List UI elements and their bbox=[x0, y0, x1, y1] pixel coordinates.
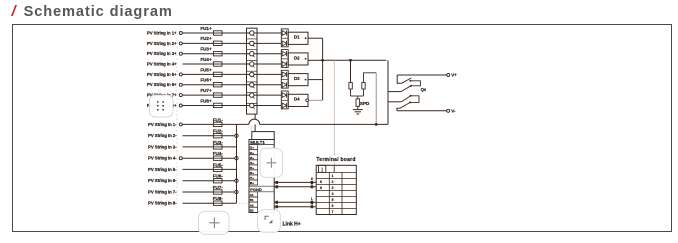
diode pair cell for strings 3/4 bbox=[281, 50, 288, 68]
svg-text:Qs: Qs bbox=[421, 87, 427, 92]
node SPD tap junction bbox=[349, 59, 352, 62]
wire PV string 6- row bbox=[183, 180, 237, 182]
surge protector SPD left arm wire bbox=[350, 60, 352, 82]
fuse FU4+ bbox=[200, 57, 222, 66]
node SPD negative junction bbox=[375, 123, 378, 126]
node PV String In 1+ input terminal bbox=[147, 31, 182, 36]
wire voltage sense line to terminal board bbox=[333, 60, 335, 172]
node PV String In 2+ input terminal bbox=[147, 41, 182, 46]
fuse FU7- bbox=[213, 185, 224, 194]
svg-text:FU2+: FU2+ bbox=[200, 36, 212, 41]
svg-text:FU4-: FU4- bbox=[213, 151, 224, 156]
svg-text:L: L bbox=[311, 197, 313, 201]
svg-text:Terminal board: Terminal board bbox=[316, 157, 355, 163]
svg-text:I3+: I3+ bbox=[250, 156, 255, 160]
wire negative feed to switch pole 3 bbox=[388, 101, 402, 103]
overlay zoom-in button 2 bbox=[199, 211, 230, 234]
node PV String In 7+ input terminal bbox=[147, 93, 182, 98]
wire PV string 7+ row bbox=[183, 94, 282, 96]
enclosure dashed boundary bbox=[177, 30, 249, 208]
svg-text:I8+: I8+ bbox=[250, 181, 255, 185]
svg-text:PV String In 2-: PV String In 2- bbox=[148, 133, 177, 138]
node bus junction string 6- bbox=[235, 179, 238, 182]
svg-text:FU1+: FU1+ bbox=[200, 26, 212, 31]
diode pair cell for strings 7/8 bbox=[281, 91, 288, 109]
diode module D4 bbox=[288, 94, 308, 106]
wire MULT1 to terminal board (L) bbox=[274, 197, 316, 204]
svg-text:PV String In 8-: PV String In 8- bbox=[148, 201, 177, 206]
node bus junction string 2- bbox=[235, 134, 238, 137]
wire switch series link poles 1-2 bbox=[410, 81, 420, 86]
svg-text:PV String In 5+: PV String In 5+ bbox=[147, 72, 177, 77]
svg-text:FU8-: FU8- bbox=[213, 196, 224, 201]
svg-text:I2+: I2+ bbox=[250, 151, 255, 155]
node PV String In 3+ input terminal bbox=[147, 51, 182, 56]
svg-text:V-: V- bbox=[451, 109, 456, 114]
svg-text:I4+: I4+ bbox=[250, 161, 255, 165]
wire MULT1 to terminal board (N) bbox=[274, 202, 316, 209]
svg-text:5: 5 bbox=[332, 198, 334, 202]
wire positive feed to switch pole 2 bbox=[388, 91, 401, 93]
wire negative collector bus vertical bbox=[236, 124, 238, 203]
wire V+ output line bbox=[397, 74, 447, 76]
node PV String In 6- input terminal bbox=[148, 178, 177, 183]
fuse FU8+ bbox=[200, 98, 222, 107]
node PV String In 8+ input terminal bbox=[147, 103, 182, 108]
terminal board bbox=[316, 157, 356, 215]
wire D1 output bbox=[308, 37, 323, 39]
overlay fullscreen button bbox=[258, 210, 281, 233]
svg-text:8: 8 bbox=[320, 186, 322, 190]
svg-text:PGND: PGND bbox=[250, 187, 262, 192]
switch Qs pole 3 bbox=[402, 95, 412, 102]
node PV String In 5- input terminal bbox=[148, 167, 177, 172]
wire PV string 8+ row bbox=[183, 105, 282, 107]
wire MULT1 to terminal board (signal 6) bbox=[274, 177, 316, 184]
svg-text:PV String In 6-: PV String In 6- bbox=[148, 178, 177, 183]
diode pair cell for strings 1/2 bbox=[281, 29, 288, 47]
wire V- output line bbox=[397, 110, 447, 112]
overlay zoom-in button 1 bbox=[260, 148, 283, 177]
node bus junction string 4- bbox=[235, 157, 238, 160]
svg-text:PV String In 1+: PV String In 1+ bbox=[147, 31, 177, 36]
wire negative bus (string 1- row, with hop) bbox=[183, 119, 389, 124]
svg-text:2: 2 bbox=[332, 180, 334, 184]
gas discharge tube of SPD bbox=[356, 99, 370, 110]
svg-text:A1: A1 bbox=[250, 193, 254, 197]
wire PV string 2+ row bbox=[183, 42, 282, 44]
svg-text:PV String In 1-: PV String In 1- bbox=[148, 122, 177, 127]
fuse FU5+ bbox=[200, 67, 222, 76]
svg-text:6: 6 bbox=[332, 204, 334, 208]
svg-text:FU7-: FU7- bbox=[213, 185, 224, 190]
svg-text:I6+: I6+ bbox=[250, 171, 255, 175]
monitoring unit MULT1 body bbox=[249, 140, 274, 220]
wire PV string 4- row bbox=[183, 157, 237, 159]
svg-text:A2: A2 bbox=[250, 203, 254, 207]
wire PV string 1+ row bbox=[183, 32, 282, 34]
node PV String In 2- input terminal bbox=[148, 133, 177, 138]
svg-text:I1+: I1+ bbox=[250, 146, 255, 150]
node PV String In 6+ input terminal bbox=[147, 82, 182, 87]
svg-text:PV String In 3-: PV String In 3- bbox=[148, 144, 177, 149]
node V+ output terminal bbox=[447, 73, 458, 78]
svg-text:FU6-: FU6- bbox=[213, 174, 224, 179]
wire switch pole1 input elbow from V+ line bbox=[397, 75, 402, 83]
wire PV string 4+ row bbox=[183, 63, 282, 65]
wire D2 output bbox=[308, 59, 323, 61]
node bus junction string 7- bbox=[235, 190, 238, 193]
fuse FU2- bbox=[213, 129, 224, 138]
fuse FU3+ bbox=[200, 47, 222, 56]
node PV String In 1- input terminal bbox=[148, 122, 182, 127]
varistor MOV1 (SPD +) bbox=[349, 83, 352, 90]
wire terminal block to MULT1 (crosses under hop) bbox=[252, 114, 256, 132]
wire SPD right arm to negative bus bbox=[364, 73, 377, 125]
node PV String In 8- input terminal bbox=[148, 201, 177, 206]
svg-text:B2: B2 bbox=[250, 208, 254, 212]
svg-text:PV String In 3+: PV String In 3+ bbox=[147, 51, 177, 56]
node PV String In 4- input terminal bbox=[148, 156, 182, 161]
svg-text:PV String In 5-: PV String In 5- bbox=[148, 167, 177, 172]
svg-text:D1: D1 bbox=[294, 35, 300, 40]
svg-text:SPD: SPD bbox=[360, 101, 370, 106]
wire SPD common join bbox=[351, 89, 364, 99]
wire PV string 5- row bbox=[183, 168, 237, 170]
fuse FU7+ bbox=[200, 88, 222, 97]
diode pair cell for strings 5/6 bbox=[281, 70, 288, 88]
svg-text:D4: D4 bbox=[294, 97, 300, 102]
node V- output terminal bbox=[447, 109, 456, 114]
svg-text:1: 1 bbox=[332, 174, 334, 178]
fuse FU1+ bbox=[200, 26, 222, 35]
label Qs bbox=[421, 87, 427, 92]
fuse FU5- bbox=[213, 162, 224, 171]
wire PV string 3+ row bbox=[183, 53, 282, 55]
svg-text:6: 6 bbox=[320, 180, 322, 184]
svg-text:I7+: I7+ bbox=[250, 176, 255, 180]
svg-text:V+: V+ bbox=[451, 73, 457, 78]
svg-text:FU3-: FU3- bbox=[213, 140, 224, 145]
svg-text:FU6+: FU6+ bbox=[200, 78, 212, 83]
svg-text:FU5-: FU5- bbox=[213, 162, 224, 167]
monitoring unit MULT1 header bbox=[252, 132, 274, 140]
node PV String In 4+ input terminal bbox=[147, 62, 177, 67]
fuse FU4- bbox=[213, 151, 224, 160]
switch Qs pole 1 bbox=[402, 78, 412, 83]
svg-text:6: 6 bbox=[311, 177, 313, 181]
svg-text:PV String In 2+: PV String In 2+ bbox=[147, 41, 177, 46]
wire main vertical to switch bbox=[387, 60, 389, 124]
node positive bus junction bbox=[321, 59, 324, 62]
wire D3 output bbox=[308, 79, 323, 81]
wire D-output collector vertical bbox=[322, 38, 324, 100]
varistor MOV2 (SPD -) bbox=[362, 83, 365, 90]
wire PV string 2- row bbox=[183, 135, 237, 137]
svg-text:7: 7 bbox=[332, 210, 334, 214]
svg-text:D2: D2 bbox=[294, 55, 300, 60]
wire D4 output (sense) bbox=[309, 99, 323, 101]
overlay drag-handle button bbox=[150, 95, 174, 117]
wire PV string 7- row bbox=[183, 191, 237, 193]
label Link H+ bbox=[283, 221, 301, 227]
svg-text:FU5+: FU5+ bbox=[200, 67, 212, 72]
wire switch pole4 output elbow to V- line bbox=[397, 108, 400, 111]
fuse FU1- bbox=[213, 117, 224, 126]
diode module D1 bbox=[288, 32, 308, 44]
fuse FU6- bbox=[213, 174, 224, 183]
ground symbol bbox=[353, 110, 363, 114]
svg-text:PV String In 6+: PV String In 6+ bbox=[147, 82, 177, 87]
svg-text:I5+: I5+ bbox=[250, 166, 255, 170]
diode module D2 bbox=[288, 53, 308, 65]
wire switch series link poles 3-4 bbox=[410, 96, 419, 103]
svg-text:8: 8 bbox=[311, 182, 313, 186]
svg-text:PV String In 4+: PV String In 4+ bbox=[147, 62, 177, 67]
svg-text:B1: B1 bbox=[250, 198, 254, 202]
fuse FU2+ bbox=[200, 36, 222, 45]
svg-text:FU4+: FU4+ bbox=[200, 57, 212, 62]
svg-text:MULT1: MULT1 bbox=[250, 140, 265, 145]
svg-text:FU1-: FU1- bbox=[213, 117, 224, 122]
svg-text:FU8+: FU8+ bbox=[200, 98, 212, 103]
terminal block X1 (8 feed-through terminals) bbox=[247, 28, 258, 114]
node PV String In 5+ input terminal bbox=[147, 72, 182, 77]
diode module D3 bbox=[288, 74, 308, 86]
wire PV string 8- row bbox=[183, 202, 237, 204]
switch Qs pole 2 bbox=[401, 85, 412, 92]
switch Qs pole 4 bbox=[400, 101, 411, 108]
svg-text:Link H+: Link H+ bbox=[283, 221, 301, 227]
svg-text:FU7+: FU7+ bbox=[200, 88, 212, 93]
svg-text:PV String In 4-: PV String In 4- bbox=[148, 156, 177, 161]
wire PV string 6+ row bbox=[183, 84, 282, 86]
svg-text:PV String In 7-: PV String In 7- bbox=[148, 190, 177, 195]
fuse FU3- bbox=[213, 140, 224, 149]
svg-text:4: 4 bbox=[332, 192, 334, 196]
svg-text:D3: D3 bbox=[294, 76, 300, 81]
node PV String In 3- input terminal bbox=[148, 144, 177, 149]
node PV String In 7- input terminal bbox=[148, 190, 177, 195]
wire MULT1 to terminal board (signal 8) bbox=[274, 182, 316, 189]
wire positive bus bbox=[323, 59, 387, 61]
svg-text:3: 3 bbox=[332, 186, 334, 190]
fuse FU8- bbox=[213, 196, 224, 205]
svg-text:FU3+: FU3+ bbox=[200, 47, 212, 52]
svg-text:FU2-: FU2- bbox=[213, 129, 224, 134]
wire PV string 3- row bbox=[183, 146, 237, 148]
wire PV string 5+ row bbox=[183, 73, 282, 75]
fuse FU6+ bbox=[200, 78, 222, 87]
